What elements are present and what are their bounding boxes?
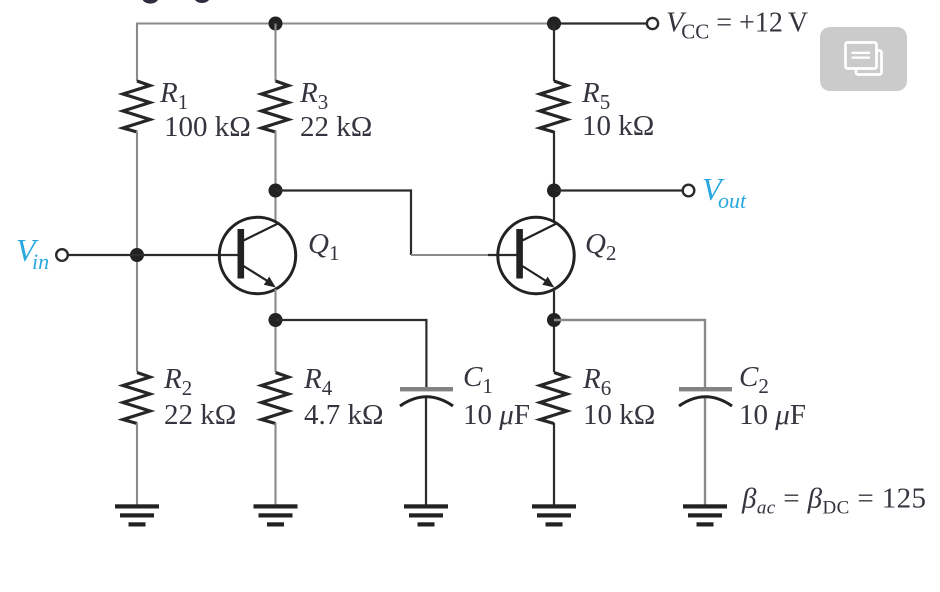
wire: Q2 collector node to Vout terminal (black) xyxy=(554,189,683,191)
svg-text:10 kΩ: 10 kΩ xyxy=(583,399,655,431)
wire: column2 R3 to Q1 collector (gray) xyxy=(274,131,276,222)
cropped heading descender 1 xyxy=(142,0,158,4)
junction dot: Q2 emitter node xyxy=(547,313,561,327)
wire: column2 rail to R3 (gray) xyxy=(274,24,276,82)
junction dot: rail / R3 column xyxy=(269,17,283,31)
wire: column1 R2 to ground (gray) xyxy=(136,423,138,505)
junction dot: Vin node xyxy=(130,248,144,262)
junction dot: Q1 emitter node xyxy=(269,313,283,327)
wire: VCC stub to terminal (black) xyxy=(554,22,647,24)
terminal: Vin open circle xyxy=(56,249,68,261)
wire: VCC top rail (gray) xyxy=(137,24,554,82)
resistor R3 xyxy=(262,81,289,132)
svg-text:R6: R6 xyxy=(582,363,611,400)
terminal: Vout open circle xyxy=(683,185,695,197)
svg-text:22 kΩ: 22 kΩ xyxy=(164,399,236,431)
capacitor C2 xyxy=(679,387,732,505)
junction dot: Q1 collector node xyxy=(269,184,283,198)
cropped heading descender 2 xyxy=(194,0,209,3)
transistor Q1 xyxy=(219,217,295,293)
wire: R6 to ground (black) xyxy=(553,423,555,505)
wire: jog to Q2 base (gray) xyxy=(411,254,489,256)
resistor R1 xyxy=(123,81,150,132)
terminal: VCC open circle xyxy=(647,18,658,29)
transistor Q2 xyxy=(498,217,574,293)
svg-text:100 kΩ: 100 kΩ xyxy=(164,111,251,143)
wire: Q1 emitter to R4 (gray) xyxy=(274,289,276,372)
svg-text:R4: R4 xyxy=(303,363,333,400)
svg-text:Q2: Q2 xyxy=(585,228,616,265)
wire: Q2 base lead (black) xyxy=(488,254,517,256)
junction dot: Q2 collector node xyxy=(547,184,561,198)
resistor R2 xyxy=(123,373,150,424)
icon: copy pages button xyxy=(820,27,907,91)
svg-text:10 μF: 10 μF xyxy=(463,399,530,431)
junction dot: rail / R5 column xyxy=(547,17,561,31)
svg-text:Q1: Q1 xyxy=(308,228,339,265)
svg-text:VCC = +12V: VCC = +12V xyxy=(666,7,808,44)
wire: R5 to Q2 collector (black) xyxy=(553,131,555,222)
wire: column2 R4 to ground (gray) xyxy=(274,423,276,505)
svg-text:C1: C1 xyxy=(463,361,493,398)
resistor R6 xyxy=(540,373,567,424)
wire: Q1 collector node jog down (black) xyxy=(276,191,412,256)
svg-text:R3: R3 xyxy=(299,77,328,114)
resistor R4 xyxy=(262,373,289,424)
svg-text:C2: C2 xyxy=(739,361,769,398)
svg-text:R5: R5 xyxy=(581,77,610,114)
svg-text:10 μF: 10 μF xyxy=(739,399,806,431)
svg-text:βac = βDC = 125: βac = βDC = 125 xyxy=(741,483,926,519)
svg-text:R2: R2 xyxy=(163,363,192,400)
svg-text:22 kΩ: 22 kΩ xyxy=(300,111,372,143)
capacitor C1 xyxy=(400,387,453,505)
wire: Q1 emitter node to C1 (black) xyxy=(276,320,427,387)
wire: column4 rail to R5 (black) xyxy=(553,24,555,82)
ground: C2 xyxy=(683,504,727,526)
wire: Q2 emitter to R6 (black) xyxy=(553,289,555,372)
ground: R6 column xyxy=(532,504,576,526)
ground: C1 xyxy=(404,504,448,526)
ground: column1 xyxy=(115,504,159,526)
wire: Vin to Q1 base (black) xyxy=(68,254,238,256)
wire: Q2 emitter node to C2 (gray) xyxy=(554,320,705,387)
svg-text:10 kΩ: 10 kΩ xyxy=(582,110,654,142)
svg-text:R1: R1 xyxy=(159,77,188,114)
svg-text:4.7 kΩ: 4.7 kΩ xyxy=(304,399,384,431)
resistor R5 xyxy=(540,81,567,132)
ground: column2 xyxy=(254,504,298,526)
svg-text:Vin: Vin xyxy=(16,232,49,274)
svg-text:Vout: Vout xyxy=(702,171,747,213)
wire: column1 R1 to R2 (gray) xyxy=(136,131,138,372)
